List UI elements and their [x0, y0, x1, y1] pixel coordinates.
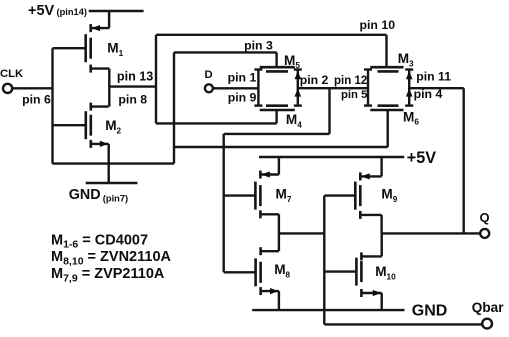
svg-text:GND: GND — [412, 302, 448, 319]
svg-text:Q: Q — [480, 210, 490, 225]
svg-text:pin 6: pin 6 — [22, 92, 51, 106]
svg-text:(pin14): (pin14) — [57, 7, 87, 17]
svg-text:pin 4: pin 4 — [414, 87, 443, 101]
svg-text:pin 9: pin 9 — [228, 91, 257, 105]
svg-text:(pin7): (pin7) — [103, 194, 128, 204]
svg-text:Qbar: Qbar — [472, 300, 504, 315]
svg-text:pin 2: pin 2 — [300, 73, 329, 87]
svg-text:+5V: +5V — [407, 149, 436, 167]
svg-text:+5V: +5V — [28, 3, 55, 19]
svg-text:pin 12: pin 12 — [334, 75, 367, 87]
svg-text:CLK: CLK — [0, 68, 24, 80]
svg-text:D: D — [205, 69, 213, 81]
svg-text:pin 10: pin 10 — [360, 18, 396, 32]
svg-text:pin 8: pin 8 — [118, 93, 147, 107]
svg-text:pin 13: pin 13 — [117, 70, 153, 84]
svg-text:pin 5: pin 5 — [341, 89, 367, 101]
svg-text:GND: GND — [69, 187, 101, 203]
svg-text:pin 3: pin 3 — [244, 38, 273, 52]
svg-text:pin 1: pin 1 — [228, 71, 257, 85]
svg-text:pin 11: pin 11 — [416, 70, 451, 84]
